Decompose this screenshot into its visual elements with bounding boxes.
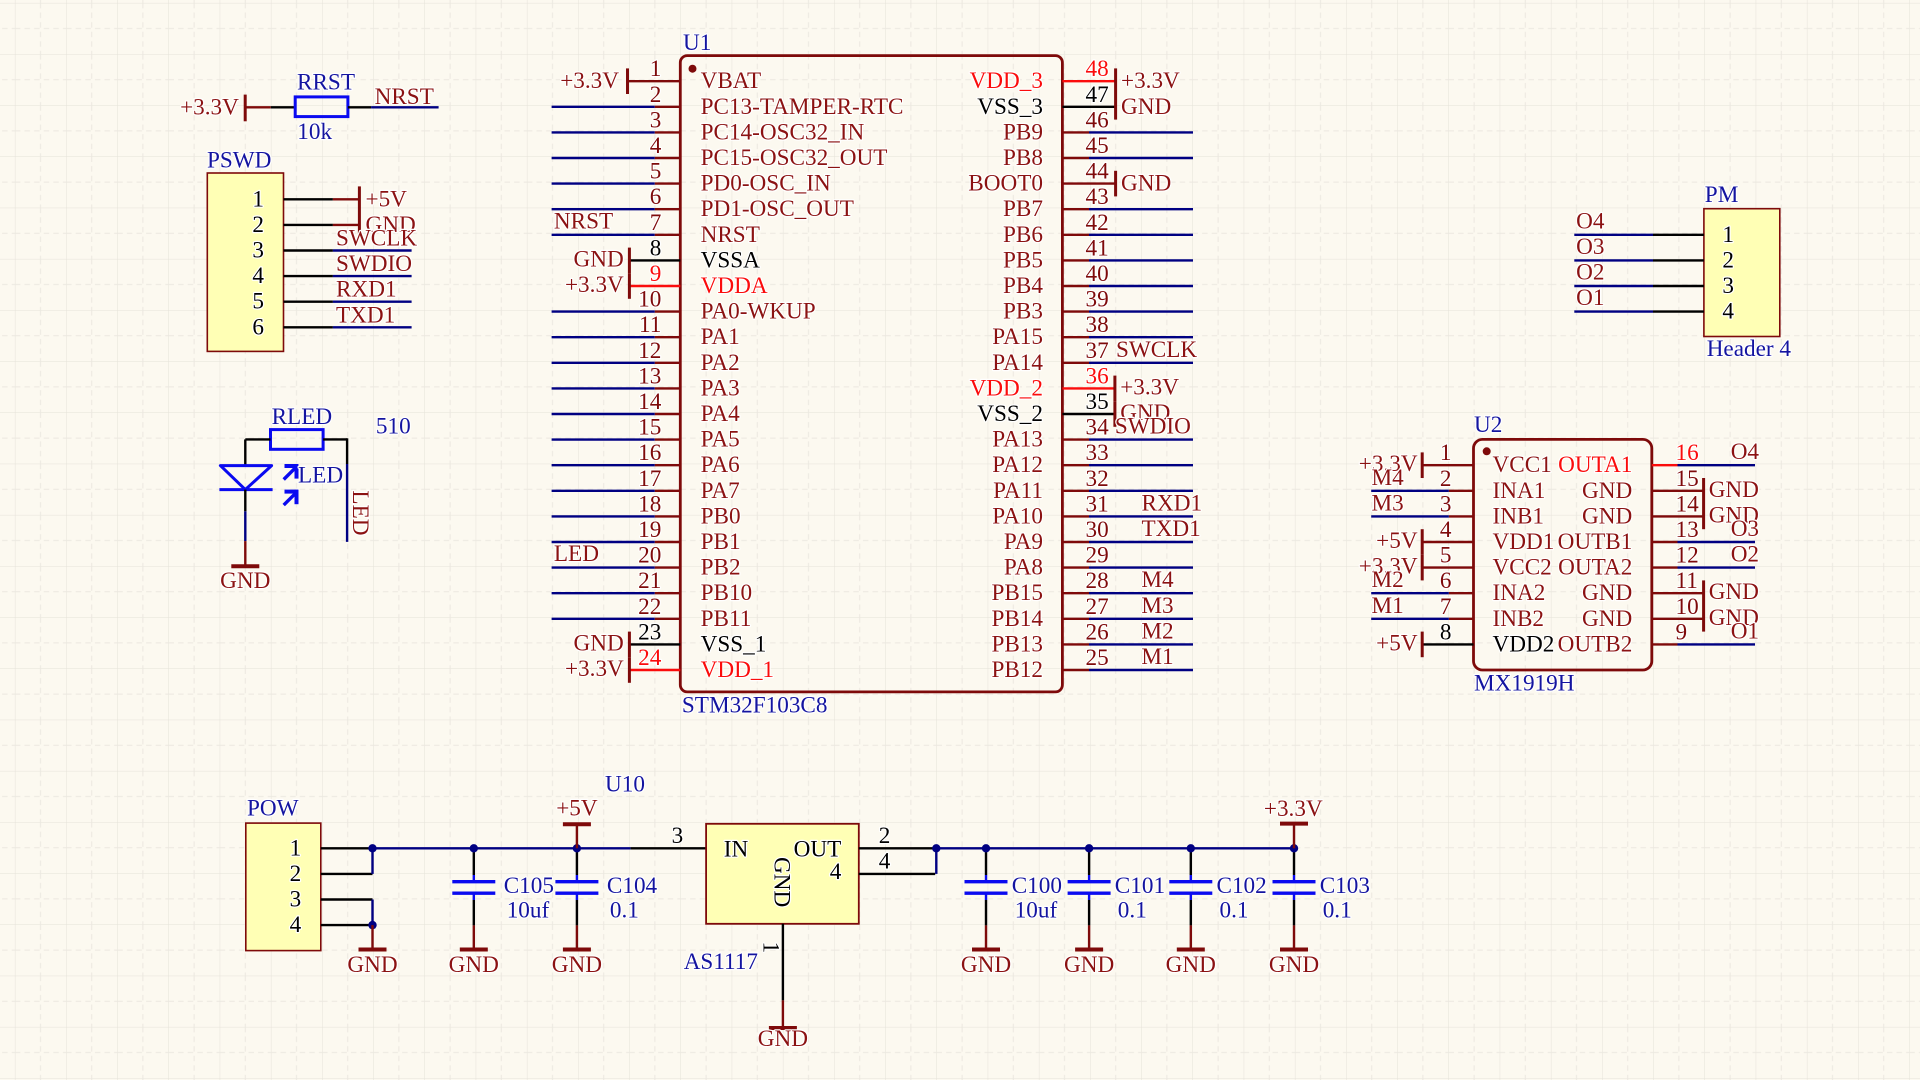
svg-text:INB1: INB1 xyxy=(1493,503,1545,529)
wire PM pin 2 xyxy=(1653,259,1704,261)
svg-text:O2: O2 xyxy=(1576,260,1604,286)
svg-text:PA1: PA1 xyxy=(701,324,740,350)
svg-text:29: 29 xyxy=(1086,543,1109,569)
U1 pin 48 (VDD_3) xyxy=(970,56,1109,94)
svg-text:0.1: 0.1 xyxy=(1118,898,1147,924)
wire net O4 (PM) xyxy=(1574,234,1653,236)
wire U2 pin 6 xyxy=(1449,592,1474,594)
net label NRST xyxy=(375,84,434,110)
wire net M4 (U2) xyxy=(1371,490,1449,492)
net label SWDIO xyxy=(336,251,412,277)
U2 pin 3 (INB1) xyxy=(1440,491,1544,529)
svg-text:6: 6 xyxy=(252,314,264,340)
svg-text:24: 24 xyxy=(638,645,662,671)
net label O1 (PM) xyxy=(1576,285,1604,311)
wire POW pin 2 xyxy=(321,873,373,875)
svg-text:IN: IN xyxy=(724,836,749,862)
svg-text:PB12: PB12 xyxy=(991,657,1043,683)
wire RLED right corner xyxy=(323,438,347,464)
svg-text:U10: U10 xyxy=(605,771,645,797)
svg-text:RXD1: RXD1 xyxy=(1142,490,1203,516)
svg-text:GND: GND xyxy=(1709,477,1759,503)
wire regulator GND pin1 xyxy=(782,924,784,1001)
svg-text:GND: GND xyxy=(574,246,624,272)
svg-text:OUTB1: OUTB1 xyxy=(1558,529,1633,555)
wire U1 pin 26 xyxy=(1089,643,1193,645)
wire U1 pin 27 xyxy=(1089,618,1193,620)
svg-text:POW: POW xyxy=(247,796,299,822)
svg-text:3: 3 xyxy=(672,823,684,849)
svg-text:VSS_3: VSS_3 xyxy=(977,94,1043,120)
svg-text:5: 5 xyxy=(1440,543,1452,569)
U1 pin 41 (PB5) xyxy=(1003,235,1109,273)
svg-text:9: 9 xyxy=(650,261,662,287)
svg-text:O3: O3 xyxy=(1576,234,1604,260)
svg-text:C101: C101 xyxy=(1115,873,1165,899)
svg-text:PA8: PA8 xyxy=(1004,555,1043,581)
svg-text:C105: C105 xyxy=(504,873,554,899)
net label M3 (U2) xyxy=(1372,490,1404,516)
power +5V (U2 pin8) xyxy=(1376,630,1473,657)
svg-text:+3.3V: +3.3V xyxy=(565,272,624,298)
svg-text:PA9: PA9 xyxy=(1004,529,1043,555)
svg-text:VDD_2: VDD_2 xyxy=(970,375,1043,401)
U1 pin 26 (PB13) xyxy=(991,619,1108,657)
svg-text:PA4: PA4 xyxy=(701,401,741,427)
svg-text:10k: 10k xyxy=(297,119,332,145)
svg-text:14: 14 xyxy=(638,389,662,415)
svg-text:16: 16 xyxy=(1676,440,1699,466)
net label NRST (U1 pin7) xyxy=(554,208,613,234)
power +3.3V (U1 pin36) xyxy=(1062,374,1179,401)
net label O1 (U2) xyxy=(1731,618,1759,644)
wire C100 bottom xyxy=(985,900,987,925)
svg-text:OUTB2: OUTB2 xyxy=(1558,631,1633,657)
wire U1 pin 10 xyxy=(552,310,655,312)
wire U1 pin 37 xyxy=(1089,362,1193,364)
svg-text:PA0-WKUP: PA0-WKUP xyxy=(701,299,816,325)
wire net M3 (U2) xyxy=(1371,515,1449,517)
wire U1 pin 2 xyxy=(552,106,655,108)
svg-text:45: 45 xyxy=(1086,133,1109,159)
svg-text:8: 8 xyxy=(650,235,662,261)
svg-text:23: 23 xyxy=(638,619,661,645)
svg-text:21: 21 xyxy=(638,568,661,594)
svg-text:22: 22 xyxy=(638,594,661,620)
ground GND (POW) xyxy=(347,925,397,978)
svg-text:M4: M4 xyxy=(1372,465,1405,491)
U1 pin 9 (VDDA) xyxy=(650,261,768,299)
ground GND (C102) xyxy=(1166,925,1216,978)
svg-text:INA2: INA2 xyxy=(1493,580,1546,606)
wire PSWD pin 3 xyxy=(284,249,333,251)
power +3.3V (U2 pin1) xyxy=(1359,451,1474,478)
svg-text:37: 37 xyxy=(1086,338,1109,364)
U2 pin 10 (GND) xyxy=(1582,594,1699,632)
wire U2 pin 16 (red) xyxy=(1652,464,1678,466)
wire U1 pin 40 xyxy=(1089,285,1193,287)
wire U1 pin 38 xyxy=(1089,336,1193,338)
svg-text:1: 1 xyxy=(252,186,264,212)
wire U1 pin 15 xyxy=(552,438,655,440)
svg-text:PB8: PB8 xyxy=(1003,145,1043,171)
wire U1 pin 43 xyxy=(1089,208,1193,210)
U1 pin 33 (PA12) xyxy=(992,440,1108,478)
U2 pin 6 (INA2) xyxy=(1440,568,1545,606)
svg-text:PA12: PA12 xyxy=(992,452,1043,478)
svg-text:7: 7 xyxy=(650,210,662,236)
wire PSWD pin 6 xyxy=(284,326,333,328)
wire net SWDIO xyxy=(333,275,412,277)
svg-text:2: 2 xyxy=(290,861,302,887)
svg-text:40: 40 xyxy=(1086,261,1109,287)
U1 pin 36 (VDD_2) xyxy=(970,363,1109,401)
wire C104 top xyxy=(576,848,578,875)
wire POW pin2 to rail xyxy=(371,848,373,874)
svg-text:42: 42 xyxy=(1086,210,1109,236)
svg-text:PB14: PB14 xyxy=(991,606,1043,632)
svg-text:9: 9 xyxy=(1676,619,1688,645)
svg-text:1: 1 xyxy=(650,56,662,82)
svg-text:PB3: PB3 xyxy=(1003,299,1043,325)
U2 pin 9 (OUTB2) xyxy=(1558,619,1688,657)
svg-text:M4: M4 xyxy=(1141,567,1174,593)
U2 pin 5 (VCC2) xyxy=(1440,543,1552,581)
junction (C104) xyxy=(573,844,581,852)
wire C103 bottom xyxy=(1293,900,1295,925)
wire U1 pin 28 xyxy=(1089,592,1193,594)
power +3.3V (U1 pin24) xyxy=(565,656,680,683)
svg-text:39: 39 xyxy=(1086,287,1109,313)
wire C104 bottom xyxy=(576,900,578,925)
svg-text:VCC2: VCC2 xyxy=(1493,555,1552,581)
svg-text:4: 4 xyxy=(830,859,842,885)
U1 pin 6 (PD1-OSC_OUT) xyxy=(650,184,854,222)
U2 pin 7 (INB2) xyxy=(1440,594,1544,632)
svg-text:20: 20 xyxy=(638,543,661,569)
capacitor C101 0.1 xyxy=(1068,873,1165,924)
wire POW pin 1 xyxy=(321,847,373,849)
wire net M1 (U2) xyxy=(1371,618,1449,620)
connector POW xyxy=(246,796,321,951)
wire U2 pin 3 xyxy=(1449,515,1474,517)
svg-text:PB5: PB5 xyxy=(1003,247,1043,273)
svg-text:2: 2 xyxy=(252,212,264,238)
svg-text:43: 43 xyxy=(1086,184,1109,210)
svg-text:27: 27 xyxy=(1086,594,1109,620)
U2 pin 16 (OUTA1) xyxy=(1558,440,1699,478)
wire C103 top xyxy=(1293,848,1295,875)
svg-text:LED: LED xyxy=(298,463,343,489)
svg-text:SWDIO: SWDIO xyxy=(1115,414,1191,440)
svg-text:INB2: INB2 xyxy=(1493,606,1545,632)
U2 pin 4 (VDD1) xyxy=(1440,517,1554,555)
svg-text:TXD1: TXD1 xyxy=(336,302,395,328)
svg-text:U2: U2 xyxy=(1474,412,1502,438)
wire C105 bottom xyxy=(473,900,475,925)
U1 pin 29 (PA8) xyxy=(1004,543,1109,581)
net label M3 (U1 pin 27) xyxy=(1141,593,1173,619)
svg-text:U1: U1 xyxy=(683,30,711,56)
wire net RXD1 xyxy=(333,301,412,303)
svg-text:28: 28 xyxy=(1086,568,1109,594)
U1 pin 3 (PC14-OSC32_IN) xyxy=(650,107,865,145)
junction (C101) xyxy=(1085,844,1093,852)
svg-text:GND: GND xyxy=(1166,952,1216,978)
svg-text:13: 13 xyxy=(638,363,661,389)
svg-text:BOOT0: BOOT0 xyxy=(968,171,1043,197)
svg-text:GND: GND xyxy=(769,857,795,907)
IC U1 STM32F103C8 body xyxy=(680,30,1062,719)
U1 pin 25 (PB12) xyxy=(991,645,1108,683)
wire U1 pin 3 xyxy=(552,131,655,133)
ground GND (U1 pin47) xyxy=(1062,94,1171,120)
svg-text:PA6: PA6 xyxy=(701,452,740,478)
net label O2 (PM) xyxy=(1576,260,1604,286)
svg-text:5: 5 xyxy=(650,159,662,185)
wire U1 pin 12 xyxy=(552,362,655,364)
junction (C103) xyxy=(1290,844,1298,852)
svg-text:+3.3V: +3.3V xyxy=(180,94,239,120)
wire U1 pin 22 xyxy=(552,618,655,620)
ground GND (U2 pins 15,14) xyxy=(1652,477,1759,529)
regulator U10 AS1117 xyxy=(605,771,891,975)
svg-text:12: 12 xyxy=(1676,543,1699,569)
U1 pin 24 (VDD_1) xyxy=(638,645,774,683)
svg-text:PB13: PB13 xyxy=(991,631,1043,657)
svg-text:PA3: PA3 xyxy=(701,375,740,401)
wire regulator IN xyxy=(631,847,707,849)
wire C101 top xyxy=(1088,848,1090,875)
wire U1 pin 17 xyxy=(552,490,655,492)
wire PSWD pin 5 xyxy=(284,301,333,303)
net label M4 (U1 pin 28) xyxy=(1141,567,1174,593)
wire LED cathode xyxy=(244,490,246,541)
svg-text:SWCLK: SWCLK xyxy=(1116,337,1197,363)
wire PM pin 3 xyxy=(1653,285,1704,287)
svg-text:10uf: 10uf xyxy=(507,898,550,924)
U1 pin 7 (NRST) xyxy=(650,210,760,248)
svg-text:+3.3V: +3.3V xyxy=(560,68,619,94)
svg-text:+3.3V: +3.3V xyxy=(1120,374,1179,400)
power +3.3V (U1 pin1) xyxy=(560,68,680,94)
svg-text:PA10: PA10 xyxy=(992,503,1043,529)
svg-text:O2: O2 xyxy=(1731,542,1759,568)
ground GND (C104) xyxy=(552,925,602,978)
wire U1 pin 5 xyxy=(552,182,655,184)
power +3.3V (rail) xyxy=(1264,796,1323,848)
svg-text:PD0-OSC_IN: PD0-OSC_IN xyxy=(701,171,831,197)
svg-text:VSSA: VSSA xyxy=(701,247,761,273)
wire U1 pin 18 xyxy=(552,515,655,517)
net label SWCLK (U1 pin 37) xyxy=(1116,337,1197,363)
svg-text:10: 10 xyxy=(638,287,661,313)
svg-text:4: 4 xyxy=(1440,517,1452,543)
svg-text:2: 2 xyxy=(650,82,662,108)
svg-text:1: 1 xyxy=(1440,440,1452,466)
wire rail +3.3V (right) xyxy=(936,847,1294,849)
svg-text:GND: GND xyxy=(1582,580,1632,606)
svg-text:RXD1: RXD1 xyxy=(336,277,397,303)
svg-text:GND: GND xyxy=(1269,952,1319,978)
svg-text:48: 48 xyxy=(1086,56,1109,82)
svg-text:M1: M1 xyxy=(1372,593,1404,619)
wire PSWD pin 1 xyxy=(284,198,333,200)
svg-text:PB9: PB9 xyxy=(1003,119,1043,145)
net label SWCLK xyxy=(336,226,417,252)
wire U1 pin 41 xyxy=(1089,259,1193,261)
svg-text:+5V: +5V xyxy=(1376,630,1418,656)
net label RXD1 xyxy=(336,277,397,303)
svg-text:PC14-OSC32_IN: PC14-OSC32_IN xyxy=(701,119,865,145)
svg-text:C102: C102 xyxy=(1217,873,1267,899)
svg-text:3: 3 xyxy=(1722,273,1734,299)
wire POW pin 3 xyxy=(321,898,373,900)
svg-text:31: 31 xyxy=(1086,491,1109,517)
svg-text:34: 34 xyxy=(1086,415,1110,441)
net label TXD1 (U1 pin 30) xyxy=(1142,516,1201,542)
wire POW pin 4 xyxy=(321,924,373,926)
wire regulator OUT pin2 xyxy=(859,847,937,849)
wire U2 pin 7 xyxy=(1449,618,1474,620)
svg-text:6: 6 xyxy=(650,184,662,210)
svg-text:VDD_1: VDD_1 xyxy=(701,657,774,683)
wire U1 pin 7 xyxy=(552,234,655,236)
wire net O3 (PM) xyxy=(1574,259,1653,261)
svg-text:PA2: PA2 xyxy=(701,350,740,376)
svg-text:GND: GND xyxy=(1121,171,1171,197)
wire U1 pin 31 xyxy=(1089,515,1193,517)
net label O2 (U2) xyxy=(1731,542,1759,568)
svg-text:35: 35 xyxy=(1086,389,1109,415)
power +3.3V (U1 pin9) xyxy=(565,272,680,299)
U1 pin 8 (VSSA) xyxy=(650,235,760,273)
svg-text:3: 3 xyxy=(252,238,264,264)
svg-text:GND: GND xyxy=(1121,94,1171,120)
svg-text:LED: LED xyxy=(554,541,599,567)
U1 pin 27 (PB14) xyxy=(991,594,1108,632)
net label RXD1 (U1 pin 31) xyxy=(1142,490,1203,516)
svg-text:32: 32 xyxy=(1086,466,1109,492)
svg-text:26: 26 xyxy=(1086,619,1109,645)
svg-text:38: 38 xyxy=(1086,312,1109,338)
U1 pin 42 (PB6) xyxy=(1003,210,1109,248)
wire RRST left xyxy=(271,106,295,108)
svg-text:0.1: 0.1 xyxy=(1220,898,1249,924)
net label O3 (U2) xyxy=(1731,516,1759,542)
svg-text:4: 4 xyxy=(290,912,302,938)
svg-text:NRST: NRST xyxy=(375,84,434,110)
power +5V (U2 pin4) xyxy=(1376,528,1473,555)
LED diode D (LED) xyxy=(219,463,343,506)
wire U2 pin 9 xyxy=(1652,643,1678,645)
svg-text:GND: GND xyxy=(961,952,1011,978)
svg-text:PA14: PA14 xyxy=(992,350,1043,376)
svg-text:7: 7 xyxy=(1440,594,1452,620)
svg-text:PB0: PB0 xyxy=(701,503,741,529)
svg-text:GND: GND xyxy=(449,952,499,978)
wire U1 pin 11 xyxy=(552,336,655,338)
U1 pin 23 (VSS_1) xyxy=(638,619,766,657)
svg-text:+5V: +5V xyxy=(366,186,408,212)
U2 pin 12 (OUTA2) xyxy=(1558,543,1699,581)
svg-text:PB7: PB7 xyxy=(1003,196,1043,222)
svg-text:2: 2 xyxy=(1440,466,1452,492)
wire U1 pin 32 xyxy=(1089,490,1193,492)
svg-text:15: 15 xyxy=(638,415,661,441)
wire U2 pin 12 xyxy=(1652,566,1678,568)
wire U1 pin 6 xyxy=(552,208,655,210)
svg-text:+3.3V: +3.3V xyxy=(1264,796,1323,822)
svg-text:M2: M2 xyxy=(1141,618,1173,644)
ground GND (regulator) xyxy=(758,1000,808,1052)
svg-text:O1: O1 xyxy=(1731,618,1759,644)
svg-text:M2: M2 xyxy=(1372,567,1404,593)
U2 pin 8 (VDD2) xyxy=(1440,619,1554,657)
svg-text:O1: O1 xyxy=(1576,285,1604,311)
U2 pin-1 marker dot xyxy=(1483,447,1491,455)
svg-text:PA13: PA13 xyxy=(992,427,1043,453)
wire U1 pin 33 xyxy=(1089,464,1193,466)
U1 pin 22 (PB11) xyxy=(638,594,751,632)
svg-text:25: 25 xyxy=(1086,645,1109,671)
svg-text:GND: GND xyxy=(1582,606,1632,632)
capacitor C104 0.1 xyxy=(555,873,657,924)
svg-text:16: 16 xyxy=(638,440,661,466)
wire C101 bottom xyxy=(1088,900,1090,925)
resistor RRST 10k xyxy=(295,70,355,145)
U1 pin 35 (VSS_2) xyxy=(977,389,1108,427)
svg-text:44: 44 xyxy=(1086,159,1110,185)
power +3.3V (RRST) xyxy=(180,94,271,121)
U1 pin 17 (PA7) xyxy=(638,466,740,504)
svg-text:SWDIO: SWDIO xyxy=(336,251,412,277)
svg-text:C104: C104 xyxy=(607,873,658,899)
net label O4 (PM) xyxy=(1576,208,1605,234)
svg-text:PSWD: PSWD xyxy=(207,148,271,174)
svg-text:+3.3V: +3.3V xyxy=(565,656,624,682)
U2 pin 15 (GND) xyxy=(1582,466,1699,504)
svg-text:O4: O4 xyxy=(1576,208,1605,234)
svg-text:OUTA2: OUTA2 xyxy=(1558,555,1632,581)
wire U1 pin 19 xyxy=(552,541,655,543)
svg-text:5: 5 xyxy=(252,289,264,315)
wire U2 pin 13 xyxy=(1652,541,1678,543)
U2 pin 11 (GND) xyxy=(1582,568,1698,606)
power +5V (rail) xyxy=(556,796,598,849)
svg-text:GND: GND xyxy=(220,568,270,594)
svg-text:GND: GND xyxy=(347,952,397,978)
svg-text:M1: M1 xyxy=(1141,644,1173,670)
svg-text:VDD2: VDD2 xyxy=(1493,631,1555,657)
svg-text:LED: LED xyxy=(347,490,373,535)
svg-text:PB4: PB4 xyxy=(1003,273,1043,299)
svg-text:0.1: 0.1 xyxy=(1323,898,1352,924)
U1 pin 10 (PA0-WKUP) xyxy=(638,287,816,325)
svg-text:12: 12 xyxy=(638,338,661,364)
wire net LED vertical xyxy=(346,464,348,542)
wire U1 pin 30 xyxy=(1089,541,1193,543)
svg-text:+5V: +5V xyxy=(1376,528,1418,554)
svg-text:STM32F103C8: STM32F103C8 xyxy=(682,693,828,719)
U1 pin 5 (PD0-OSC_IN) xyxy=(650,159,831,197)
svg-text:3: 3 xyxy=(1440,491,1452,517)
U2 pin 1 (VCC1) xyxy=(1440,440,1552,478)
U1 pin 21 (PB10) xyxy=(638,568,752,606)
ground GND (C103) xyxy=(1269,925,1319,978)
svg-text:1: 1 xyxy=(758,942,784,954)
svg-text:NRST: NRST xyxy=(554,208,613,234)
